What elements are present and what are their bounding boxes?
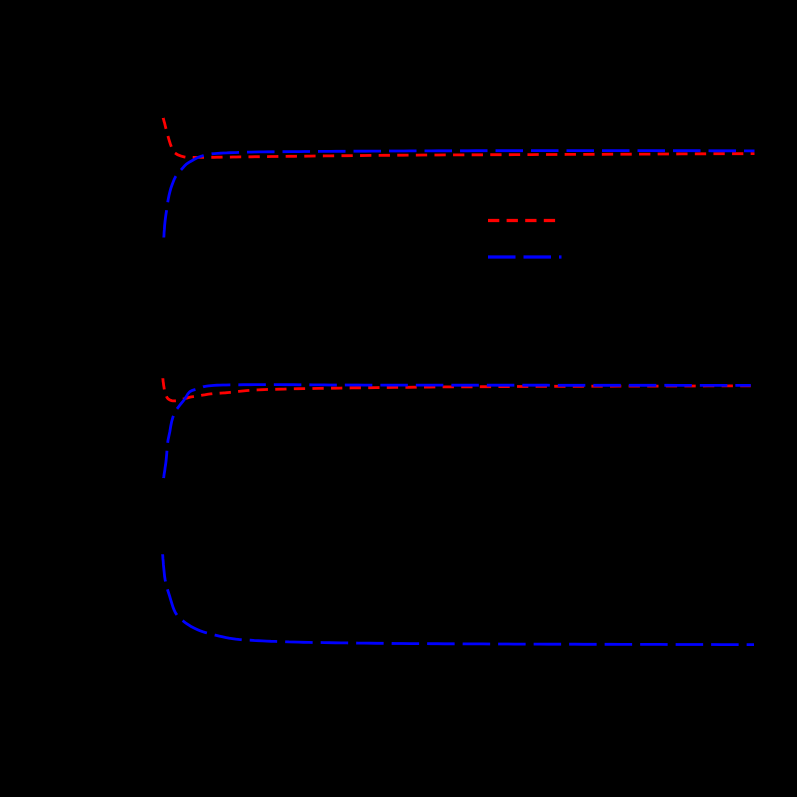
legend sample: red dashed line [488, 219, 562, 222]
bottom subplot: blue long-dashed curve, upper branch [164, 385, 751, 478]
bottom subplot: red short-dashed curve [163, 378, 751, 401]
bottom subplot: blue long-dashed curve, lower branch [163, 554, 754, 644]
top subplot: blue long-dashed curve [164, 151, 755, 238]
top subplot: red short-dashed curve [163, 118, 754, 157]
legend sample: blue long-dashed line [488, 255, 562, 258]
